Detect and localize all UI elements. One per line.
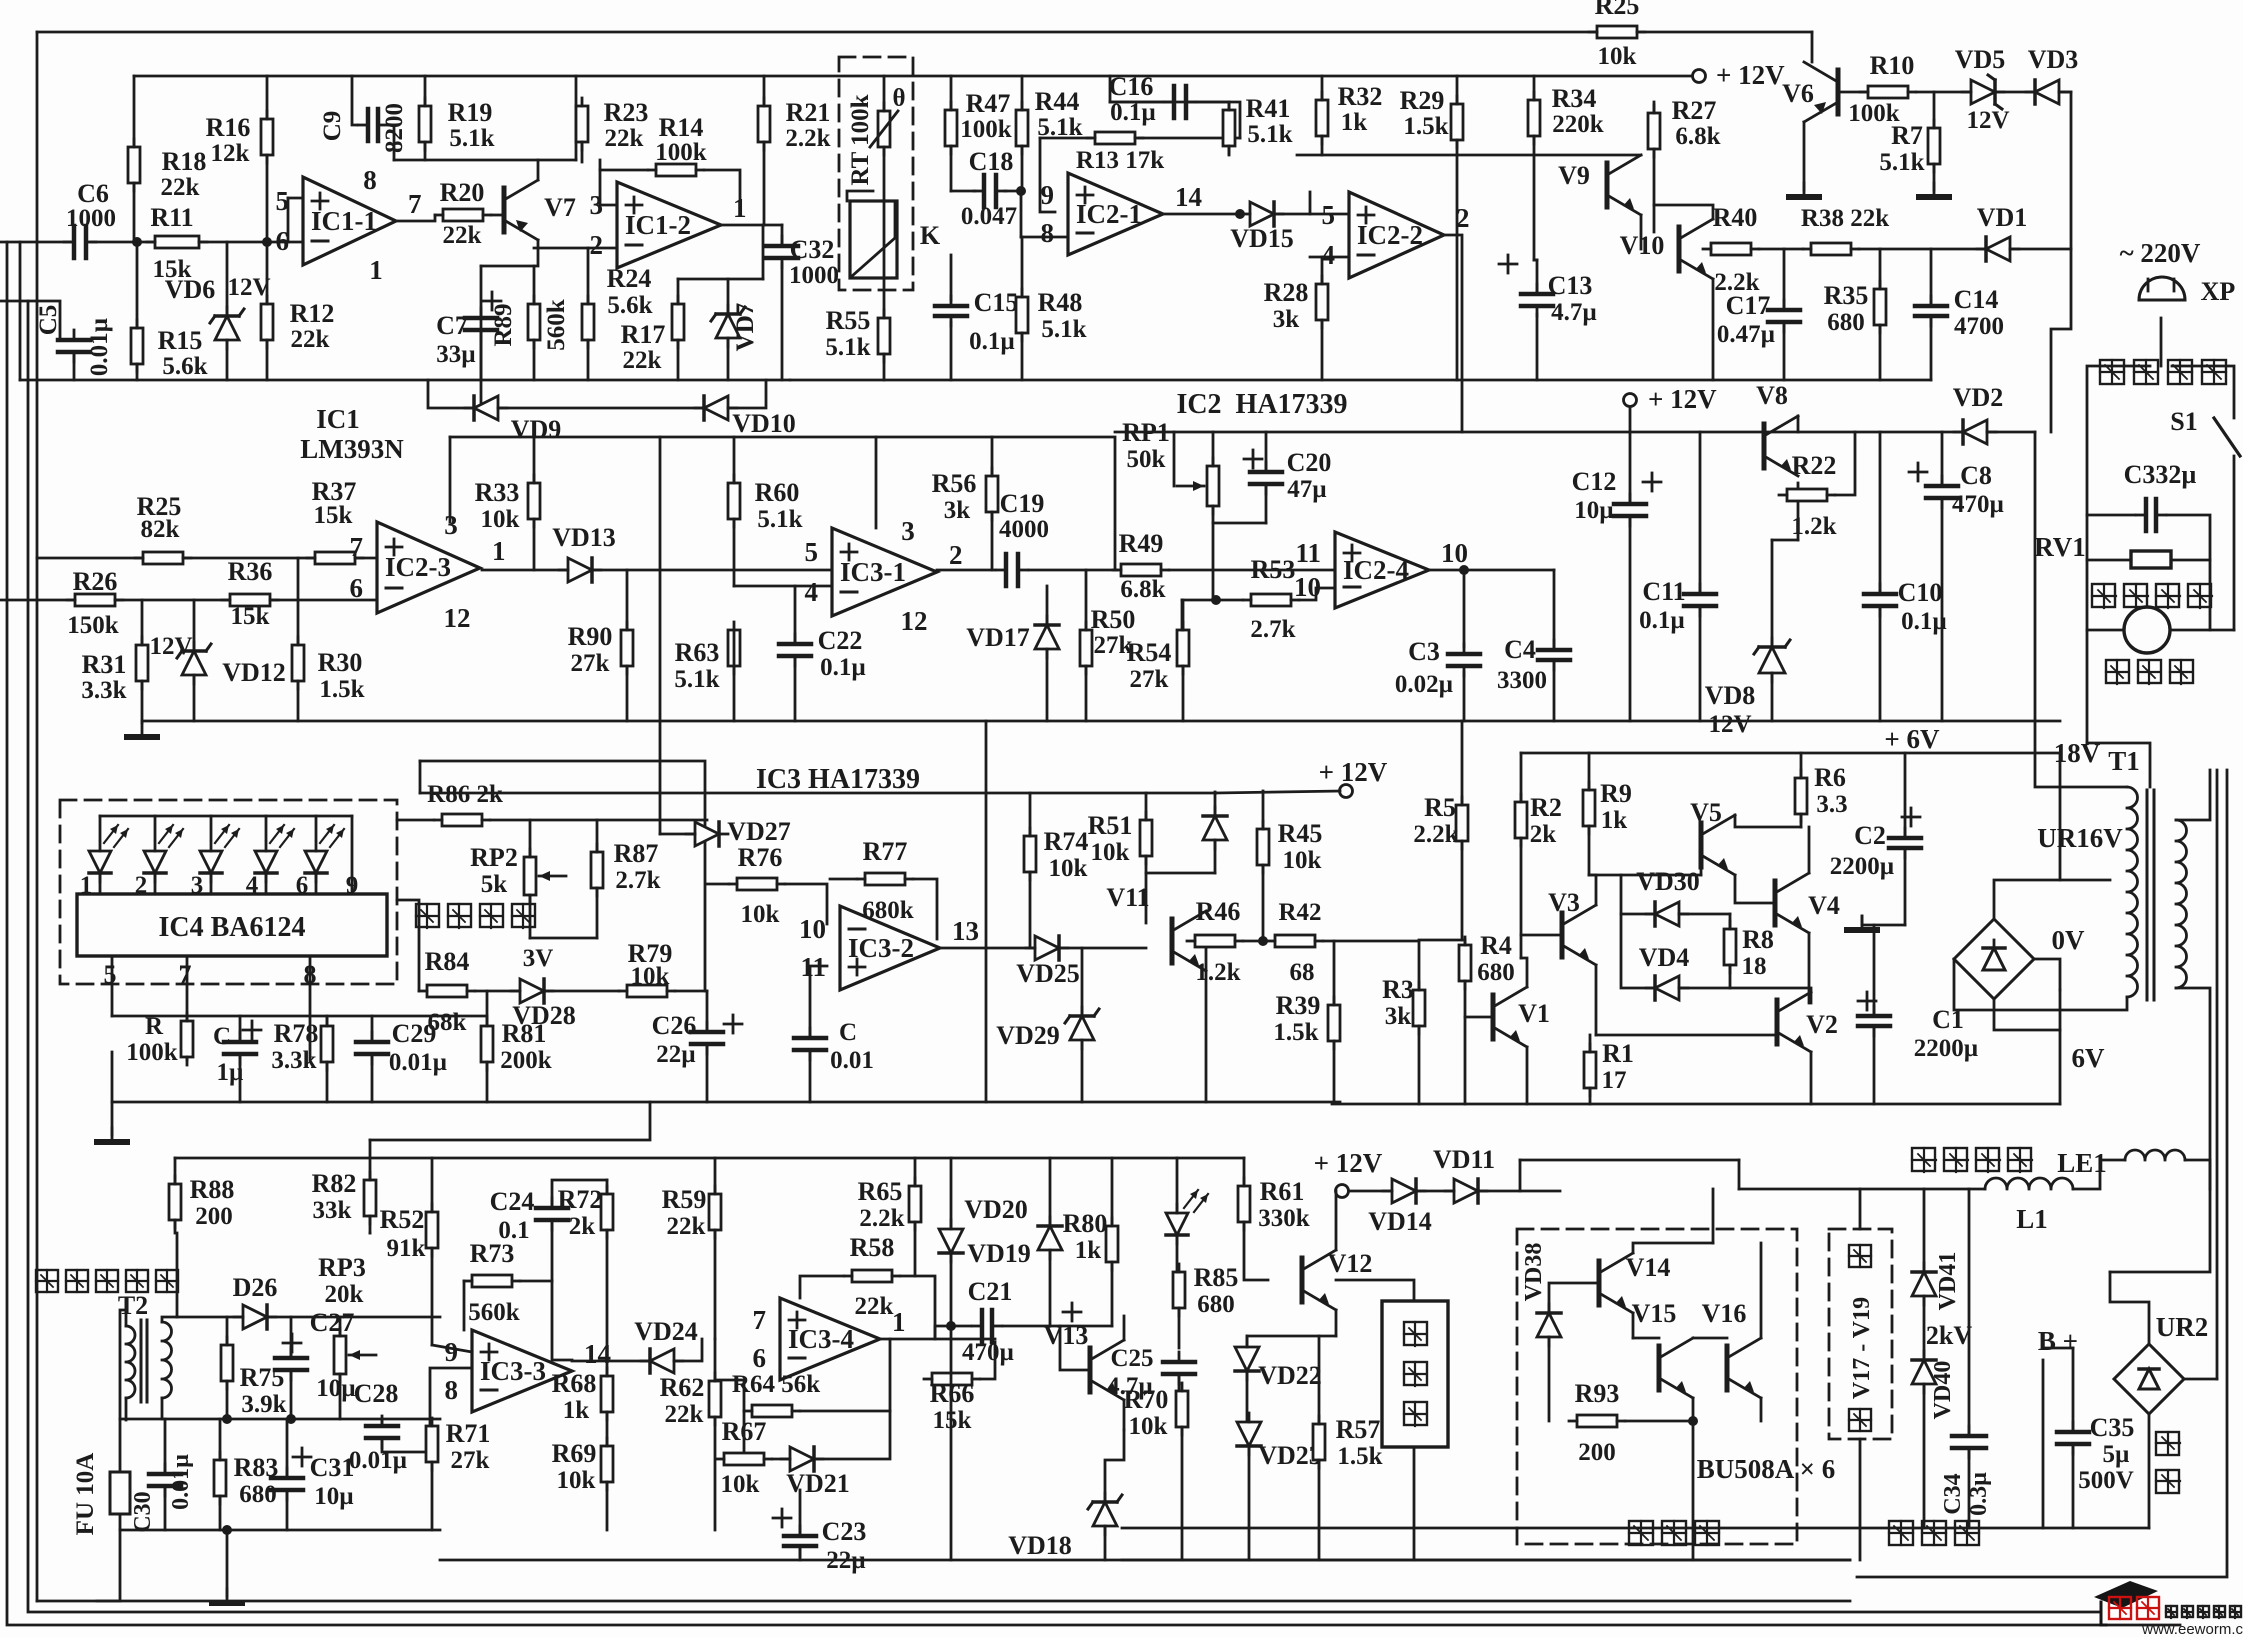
wire	[1589, 1088, 1592, 1104]
resistor R82	[364, 1180, 376, 1216]
wire	[120, 1418, 440, 1421]
diode VD8	[1759, 647, 1785, 673]
svg-text:200: 200	[1578, 1439, 1616, 1466]
svg-text:3V: 3V	[523, 945, 554, 972]
wire	[830, 878, 857, 881]
wire	[552, 1281, 572, 1360]
svg-text:22k: 22k	[161, 174, 200, 201]
resistor R85	[1173, 1272, 1185, 1308]
wire	[2035, 432, 2127, 787]
wire	[1923, 1189, 1926, 1271]
wire	[424, 76, 427, 106]
wire	[1122, 1527, 2149, 1530]
svg-text:22k: 22k	[605, 125, 644, 152]
transformer T1 core	[2146, 790, 2149, 1000]
wire	[1873, 925, 1876, 1015]
resistor R14	[656, 164, 696, 176]
resistor R7	[1928, 128, 1940, 164]
wire	[1519, 1160, 1522, 1191]
wire	[1994, 880, 2110, 919]
svg-text:12: 12	[901, 606, 928, 636]
wire	[660, 833, 695, 836]
wire	[1169, 569, 1335, 572]
wire	[1595, 965, 1598, 1035]
wire	[2087, 743, 2150, 787]
wire	[37, 31, 1812, 34]
svg-text:R61: R61	[1260, 1177, 1305, 1206]
wire	[677, 340, 680, 380]
resistor R27	[1648, 113, 1660, 149]
svg-text:R85: R85	[1194, 1263, 1239, 1292]
wire	[1173, 432, 1176, 486]
svg-text:1: 1	[369, 255, 383, 285]
capacitor C12 plus	[1643, 481, 1661, 484]
fuse FU	[110, 1472, 130, 1514]
svg-text:D26: D26	[233, 1273, 278, 1302]
diode VD1	[1986, 237, 2010, 261]
svg-text:IC3-3: IC3-3	[480, 1356, 546, 1386]
resistor R37	[315, 552, 355, 564]
wire	[572, 1361, 607, 1376]
resistor R22	[1787, 489, 1827, 501]
svg-text:VD21: VD21	[786, 1469, 850, 1498]
svg-text:R59: R59	[662, 1185, 707, 1214]
wire	[2167, 515, 2210, 630]
wire	[2233, 456, 2236, 630]
wire	[991, 512, 994, 570]
resistor R60	[728, 483, 740, 519]
wire	[1904, 849, 1907, 925]
svg-text:UR16V: UR16V	[2037, 823, 2123, 853]
wire	[1176, 1158, 1179, 1213]
svg-text:VD41: VD41	[1935, 1252, 1961, 1311]
wire	[351, 816, 354, 894]
svg-text:R41: R41	[1246, 94, 1291, 123]
wire	[1533, 76, 1536, 100]
svg-text:2.2k: 2.2k	[859, 1205, 904, 1232]
svg-text:22k: 22k	[291, 326, 330, 353]
svg-text:VD3: VD3	[2028, 45, 2079, 74]
wire	[880, 1338, 995, 1341]
svg-text:VD18: VD18	[1008, 1531, 1072, 1560]
wire	[950, 146, 953, 191]
wire	[1081, 948, 1084, 1015]
svg-text:4: 4	[805, 577, 819, 607]
svg-text:VD15: VD15	[1230, 224, 1294, 253]
wire	[286, 1419, 289, 1478]
svg-text:R16: R16	[206, 113, 251, 142]
diode VD19	[1038, 1226, 1062, 1250]
buzzer box	[1382, 1301, 1448, 1447]
svg-text:R56: R56	[932, 469, 977, 498]
svg-text:VD29: VD29	[996, 1021, 1060, 1050]
svg-text:V3: V3	[1548, 888, 1580, 917]
wire	[1310, 256, 1349, 259]
resistor R40	[1711, 243, 1751, 255]
wire	[1321, 136, 1324, 155]
svg-text:15k: 15k	[231, 603, 270, 630]
svg-text:UR2: UR2	[2156, 1312, 2209, 1342]
svg-text:+ 12V: + 12V	[1648, 384, 1717, 414]
wire	[286, 1490, 289, 1530]
svg-text:C16: C16	[1109, 72, 1154, 101]
svg-text:500V: 500V	[2078, 1467, 2134, 1494]
svg-text:R84: R84	[425, 947, 470, 976]
capacitor C20	[1250, 470, 1282, 475]
wire	[1059, 947, 1146, 950]
svg-text:VD19: VD19	[967, 1239, 1031, 1268]
svg-text:0.1µ: 0.1µ	[969, 328, 1015, 355]
svg-text:10k: 10k	[631, 963, 670, 990]
wire	[1729, 965, 1732, 988]
wire	[883, 76, 886, 111]
svg-text:22k: 22k	[667, 1213, 706, 1240]
svg-text:VD38: VD38	[1521, 1243, 1547, 1302]
diode VD21	[790, 1447, 814, 1471]
wire	[1216, 791, 1340, 793]
wire	[950, 255, 953, 300]
svg-text:10µ: 10µ	[314, 1483, 353, 1510]
resistor R52	[426, 1212, 438, 1248]
svg-text:V2: V2	[1806, 1010, 1838, 1039]
resistor R8	[1724, 929, 1736, 965]
wire	[1163, 213, 1240, 216]
resistor R83	[214, 1460, 226, 1496]
capacitor C332	[2144, 499, 2149, 531]
svg-text:IC3 HA17339: IC3 HA17339	[756, 764, 920, 795]
wire	[1730, 988, 1811, 992]
svg-text:1: 1	[892, 1307, 906, 1337]
wire	[1987, 431, 2035, 434]
svg-text:VD20: VD20	[964, 1195, 1028, 1224]
wire	[552, 1180, 607, 1208]
svg-text:3.3k: 3.3k	[81, 677, 126, 704]
wire	[397, 819, 434, 822]
wire	[733, 630, 736, 666]
wire	[1653, 149, 1656, 232]
svg-text:33k: 33k	[313, 1197, 352, 1224]
wire	[226, 1381, 229, 1419]
svg-text:C19: C19	[1000, 489, 1045, 518]
svg-text:R38 22k: R38 22k	[1801, 205, 1889, 232]
capacitor C1	[1858, 1014, 1890, 1019]
wire	[1349, 1190, 1390, 1193]
svg-text:10k: 10k	[557, 1467, 596, 1494]
wire	[37, 1600, 1850, 1603]
wire	[596, 820, 599, 852]
wire	[1771, 673, 1774, 721]
resistor R69	[601, 1446, 613, 1482]
transistor V10	[1677, 227, 1682, 271]
svg-text:12V: 12V	[227, 274, 270, 301]
wire	[1046, 650, 1049, 721]
wire	[714, 1158, 717, 1194]
svg-text:4700: 4700	[1954, 313, 2004, 340]
wire	[1463, 672, 1466, 721]
wire	[674, 1339, 702, 1361]
wire	[1005, 190, 1021, 193]
wire	[950, 76, 953, 110]
wire	[715, 1380, 744, 1411]
wire	[154, 816, 157, 840]
terminal +12V mid2	[1340, 785, 1353, 798]
diode VD11	[1454, 1179, 1478, 1203]
svg-text:C12: C12	[1572, 467, 1617, 496]
svg-text:12k: 12k	[211, 140, 250, 167]
transistor V13	[1088, 1348, 1093, 1392]
svg-text:R46: R46	[1196, 897, 1241, 926]
resistor R76	[737, 878, 777, 890]
svg-text:10: 10	[799, 914, 826, 944]
wire	[97, 1514, 120, 1601]
svg-text:2kV: 2kV	[1926, 1321, 1972, 1350]
resistor R54	[1177, 630, 1189, 666]
resistor R25b	[143, 552, 183, 564]
svg-text:2.7k: 2.7k	[615, 867, 660, 894]
wire	[659, 721, 662, 834]
svg-text:12V: 12V	[1966, 107, 2009, 134]
op-amp IC3-2	[840, 906, 940, 990]
svg-text:2: 2	[590, 230, 604, 260]
svg-text:S1: S1	[2170, 407, 2197, 436]
svg-text:R75: R75	[240, 1363, 285, 1392]
svg-text:RP3: RP3	[318, 1253, 366, 1282]
wire	[339, 1317, 342, 1336]
wire	[533, 266, 536, 304]
wire	[1772, 539, 1798, 542]
transformer T1 left	[2127, 787, 2138, 997]
svg-text:R12: R12	[290, 299, 335, 328]
svg-text:R78: R78	[274, 1019, 319, 1048]
wire	[1954, 959, 2127, 1010]
resistor R33	[528, 483, 540, 519]
svg-text:V9: V9	[1558, 161, 1590, 190]
svg-text:10µ: 10µ	[316, 1375, 355, 1402]
svg-text:VD14: VD14	[1368, 1207, 1432, 1236]
wire	[1299, 588, 1335, 600]
wire	[2148, 1414, 2151, 1528]
transistor V1	[1491, 995, 1496, 1039]
watermark chongchong	[2109, 1597, 2131, 1619]
wire	[1633, 1337, 1659, 1340]
wire	[141, 600, 144, 721]
label qiaodui	[2156, 1432, 2180, 1455]
wire	[728, 380, 766, 408]
wire	[714, 1339, 717, 1381]
resistor R57	[1313, 1424, 1325, 1460]
svg-text:V6: V6	[1782, 79, 1814, 108]
wire	[1995, 91, 2035, 94]
relay K	[850, 201, 897, 278]
wire	[315, 875, 318, 894]
resistor R53	[1251, 594, 1291, 606]
wire	[136, 242, 139, 328]
wire	[1265, 432, 1268, 472]
wire	[581, 142, 584, 162]
svg-text:R63: R63	[675, 638, 720, 667]
wire	[781, 225, 784, 246]
resistor R88	[169, 1184, 181, 1220]
wire	[120, 1310, 126, 1472]
svg-text:C9: C9	[319, 111, 346, 142]
wire	[1228, 102, 1231, 110]
svg-text:2200µ: 2200µ	[1830, 853, 1894, 880]
wire	[0, 241, 70, 244]
transformer T2 right	[162, 1322, 172, 1398]
LED 4	[255, 851, 277, 873]
node B	[262, 237, 272, 247]
svg-text:6: 6	[753, 1343, 767, 1373]
wire	[1589, 875, 1596, 905]
svg-text:27k: 27k	[451, 1447, 490, 1474]
wire	[326, 1062, 329, 1102]
node r53	[1211, 595, 1221, 605]
wire	[1621, 875, 1655, 988]
svg-text:V11: V11	[1106, 883, 1149, 912]
svg-text:1000: 1000	[789, 262, 839, 289]
resistor R66	[932, 1373, 972, 1385]
wire	[120, 1529, 440, 1532]
wire	[486, 991, 489, 1026]
svg-text:VD25: VD25	[1016, 959, 1080, 988]
svg-text:R55: R55	[826, 306, 871, 335]
wire	[369, 1140, 372, 1180]
svg-text:22k: 22k	[665, 1401, 704, 1428]
svg-text:5µ: 5µ	[2103, 1441, 2130, 1468]
wire	[1588, 826, 1591, 875]
wire	[2051, 92, 2071, 432]
wire	[432, 1345, 472, 1352]
resistor R44	[1016, 110, 1028, 146]
capacitor C17	[1768, 308, 1800, 313]
wire	[520, 1280, 552, 1283]
diode VD18	[1093, 1502, 1117, 1526]
svg-text:R30: R30	[318, 648, 363, 677]
wire	[1712, 1189, 1715, 1243]
wire	[1212, 523, 1215, 600]
wire	[544, 990, 619, 993]
wire	[136, 364, 139, 380]
svg-text:V8: V8	[1756, 381, 1788, 410]
wire	[381, 1419, 384, 1426]
wire	[219, 1419, 222, 1460]
svg-text:R88: R88	[190, 1175, 235, 1204]
resistor R15	[131, 328, 143, 364]
wire	[1692, 1398, 1695, 1421]
wire	[1968, 1189, 1971, 1436]
svg-text:R40: R40	[1713, 203, 1758, 232]
wire	[2059, 91, 2071, 94]
svg-text:5: 5	[104, 960, 117, 989]
wire	[714, 1417, 717, 1530]
capacitor C1u	[224, 1040, 256, 1045]
svg-text:5.1k: 5.1k	[1247, 121, 1292, 148]
wire	[1549, 1283, 1599, 1313]
wire	[490, 819, 707, 822]
svg-text:C26: C26	[652, 1011, 697, 1040]
capacitor C28	[366, 1424, 398, 1429]
wire	[174, 1220, 177, 1233]
svg-text:K: K	[920, 221, 941, 250]
svg-text:8: 8	[1041, 218, 1055, 248]
wire	[297, 558, 300, 645]
wire	[1589, 874, 1701, 877]
node ic24out	[1459, 565, 1469, 575]
wire	[1930, 249, 1933, 305]
svg-text:22k: 22k	[443, 222, 482, 249]
svg-text:1.5k: 1.5k	[1403, 113, 1448, 140]
svg-text:18: 18	[1742, 953, 1767, 980]
wire	[596, 888, 599, 938]
resistor R59	[709, 1194, 721, 1230]
wire	[606, 1412, 609, 1446]
svg-text:0.01µ: 0.01µ	[86, 318, 113, 376]
wire	[424, 142, 427, 160]
wire	[606, 1482, 609, 1530]
capacitor C34	[1952, 1434, 1986, 1439]
svg-text:2.2k: 2.2k	[785, 125, 830, 152]
wire	[2176, 770, 2210, 820]
wire	[704, 170, 740, 212]
wire	[482, 569, 832, 572]
wire	[1318, 1460, 1321, 1560]
capacitor C31 plus	[293, 1456, 311, 1459]
svg-text:13: 13	[952, 916, 979, 946]
wire	[1857, 770, 2227, 1577]
wire	[980, 1342, 995, 1379]
wire	[1246, 1371, 1249, 1421]
wire	[1933, 164, 1936, 190]
wire	[2110, 1189, 2210, 1272]
pot RP2	[524, 857, 536, 895]
svg-text:V1: V1	[1518, 999, 1550, 1028]
wire	[288, 197, 303, 200]
resistor R	[181, 1021, 193, 1057]
wire	[985, 721, 988, 1102]
wire	[1760, 1398, 1763, 1421]
wire	[1692, 1421, 1695, 1560]
wire	[431, 1248, 434, 1345]
svg-text:R39: R39	[1276, 991, 1321, 1020]
svg-text:IC3-1: IC3-1	[840, 557, 906, 587]
diode VD29	[1070, 1016, 1094, 1040]
watermark text	[2166, 1606, 2177, 1618]
wire	[1553, 570, 1556, 649]
wire	[1521, 958, 1527, 987]
wire	[463, 1281, 466, 1330]
svg-text:+ 12V: + 12V	[1314, 1148, 1383, 1178]
svg-text:10k: 10k	[481, 506, 520, 533]
capacitor C12	[1614, 502, 1646, 507]
wire	[707, 883, 729, 886]
svg-text:R24: R24	[607, 264, 652, 293]
resistor R56	[986, 476, 998, 512]
svg-text:R72: R72	[558, 1185, 603, 1214]
svg-text:IC1-1: IC1-1	[311, 206, 377, 236]
svg-text:33µ: 33µ	[436, 341, 475, 368]
wire	[743, 1411, 746, 1459]
wire	[1463, 570, 1466, 647]
resistor R36	[230, 594, 270, 606]
wire	[1968, 1448, 1971, 1528]
wire	[1335, 1191, 1338, 1250]
diode VD5	[1971, 80, 1995, 104]
junction bu	[1688, 1416, 1698, 1426]
svg-text:R5: R5	[1424, 793, 1456, 822]
wire	[161, 1398, 164, 1419]
label zunimguan	[1889, 1521, 1913, 1545]
wire	[607, 1360, 650, 1363]
